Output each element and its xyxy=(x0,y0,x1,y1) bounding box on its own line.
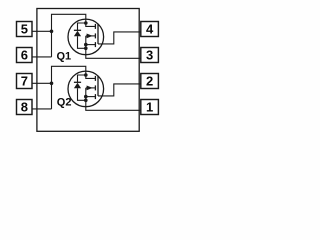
wire: pin 6 to internal bus xyxy=(32,56,52,58)
wire: pins bus to Q2 drain feed xyxy=(52,66,86,83)
diode: Q2 body diode triangle (anode, pointing up) xyxy=(74,83,81,89)
pin 4 box xyxy=(141,22,159,37)
svg-text:6: 6 xyxy=(21,48,28,63)
pin 7 box xyxy=(17,74,33,89)
channel: Q1 body segment xyxy=(94,33,96,38)
package outline: SO-8 body xyxy=(37,9,139,132)
node: Q1 diode anode junction dot xyxy=(84,47,88,51)
wire: Q2 gate lead to pin 2 xyxy=(98,84,141,96)
transistor Q1 (N-channel MOSFET) body circle xyxy=(68,19,104,55)
node: pin 5/6 bus junction dot xyxy=(50,30,54,34)
wire: Q1 drain node to body diode cathode xyxy=(78,23,86,30)
wire: Q2 source lead to pin 1 xyxy=(86,100,141,110)
svg-text:Q2: Q2 xyxy=(57,96,72,108)
wire: Q1 source contact branch xyxy=(86,44,96,46)
wire: pin 8 to internal bus xyxy=(32,108,52,110)
wire: Q1 body diode anode to source node xyxy=(78,36,86,48)
pin 2 box xyxy=(141,74,159,89)
wire: pin 7 to internal bus xyxy=(32,82,52,84)
gate: Q1 gate electrode bar xyxy=(97,24,99,44)
arrow: Q2 body arrowhead pointing to channel xyxy=(87,86,93,91)
channel: Q2 source segment xyxy=(94,94,96,99)
svg-text:1: 1 xyxy=(146,100,153,115)
node: Q2 drain junction dot xyxy=(84,73,88,77)
channel: Q1 drain segment xyxy=(94,24,96,29)
pin 6 box xyxy=(17,48,33,63)
wire: Q1 body to source vertical xyxy=(85,36,87,48)
channel: Q2 drain segment xyxy=(94,76,96,81)
pin 3 box xyxy=(141,48,159,63)
wire: Q2 source contact branch xyxy=(86,96,96,98)
svg-text:5: 5 xyxy=(21,22,28,37)
svg-text:3: 3 xyxy=(146,48,153,63)
wire: bus joining pins 5 and 6 (Q1 drain) xyxy=(51,31,53,57)
diode: Q1 body diode cathode bar xyxy=(74,29,81,31)
wire: pins bus to Q1 drain feed xyxy=(52,14,86,31)
svg-text:8: 8 xyxy=(21,100,28,115)
wire: Q2 drain node to body diode cathode xyxy=(78,75,86,82)
node: Q2 source-body junction dot xyxy=(84,95,88,99)
wire: pin 5 to internal bus xyxy=(32,30,52,32)
diode: Q1 body diode triangle (anode, pointing up) xyxy=(74,31,81,37)
node: Q1 drain junction dot xyxy=(84,21,88,25)
wire: Q2 body to source vertical xyxy=(85,88,87,100)
svg-text:4: 4 xyxy=(146,22,154,37)
svg-text:2: 2 xyxy=(146,74,153,89)
pin 5 box xyxy=(17,22,33,37)
wire: Q1 source lead to pin 3 xyxy=(86,48,141,58)
wire: Q1 body connection with arrow xyxy=(86,35,96,37)
node: pin 7/8 bus junction dot xyxy=(50,82,54,86)
wire: Q2 body connection with arrow xyxy=(86,87,96,89)
wire: Q2 body diode anode to source node xyxy=(78,88,86,100)
wire: Q1 drain node to channel drain contact xyxy=(86,23,96,26)
arrow: Q1 body arrowhead pointing to channel xyxy=(87,34,93,39)
node: Q2 diode anode junction dot xyxy=(84,99,88,103)
node: Q1 source-body junction dot xyxy=(84,43,88,47)
gate: Q2 gate electrode bar xyxy=(97,76,99,96)
diode: Q2 body diode cathode bar xyxy=(74,81,81,83)
pin 8 box xyxy=(17,100,33,115)
channel: Q1 source segment xyxy=(94,42,96,47)
svg-text:Q1: Q1 xyxy=(57,50,72,62)
wire: bus joining pins 7 and 8 (Q2 drain) xyxy=(51,83,53,109)
wire: Q2 drain node to channel drain contact xyxy=(86,75,96,78)
wire: Q1 gate lead to pin 4 xyxy=(98,32,141,44)
pin 1 box xyxy=(141,100,159,115)
channel: Q2 body segment xyxy=(94,85,96,90)
svg-text:7: 7 xyxy=(21,74,28,89)
transistor Q2 (N-channel MOSFET) body circle xyxy=(68,71,104,107)
